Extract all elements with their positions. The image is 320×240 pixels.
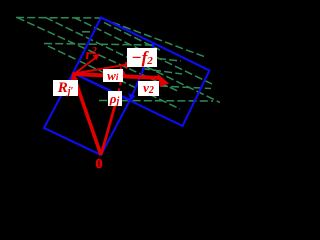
red arrow hub to -f2 box <box>74 64 128 73</box>
green lattice diagonal D1 <box>17 18 180 93</box>
red arrow hub to r^2 tip <box>74 58 96 75</box>
label R_j' <box>53 80 78 96</box>
green lattice row line 3 (short) <box>158 59 181 62</box>
red vector O to hub (R_j' arrow) <box>74 77 101 155</box>
blue parallelogram P1 (large) <box>73 18 210 127</box>
green lattice diagonal D2 <box>46 18 221 103</box>
red vector O to rho_j tip (solid lower, dashed upper) <box>101 100 117 155</box>
green lattice shallow diagonal from apex <box>102 19 204 57</box>
green lattice row line 3c <box>160 86 211 89</box>
green lattice short row line <box>82 31 95 33</box>
label -f2 <box>127 48 157 67</box>
green lattice diagonal D4 (short, under blue edge) <box>104 23 160 51</box>
label nu_2 <box>138 81 159 96</box>
blue vector -f2 <box>132 44 154 96</box>
green lattice row line 3b <box>142 69 182 75</box>
red thick arrow hub to nu_2 tip <box>73 74 160 78</box>
green lattice row line 4 <box>99 100 213 103</box>
blue parallelogram P2 (small, lower-left) <box>44 73 130 155</box>
label w_i <box>103 69 123 82</box>
label 0 (origin) <box>96 158 103 172</box>
green lattice diagonal D0 <box>48 46 180 109</box>
green lattice diagonal D3 <box>74 18 212 85</box>
green lattice row line 1 <box>16 17 102 20</box>
label r^2 (no box) <box>86 46 97 63</box>
green lattice row line 2 <box>44 44 154 46</box>
blue arrowhead of -f2 <box>128 93 135 101</box>
label rho_j <box>108 91 122 106</box>
